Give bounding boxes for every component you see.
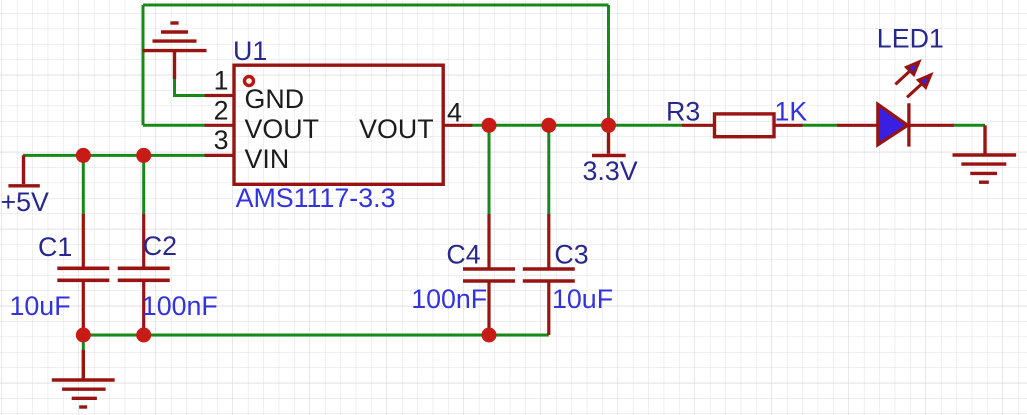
svg-text:100nF: 100nF [411, 284, 487, 314]
svg-text:VOUT: VOUT [245, 114, 319, 144]
wire output bus [471, 124, 682, 127]
svg-text:C4: C4 [446, 240, 480, 270]
svg-text:VOUT: VOUT [359, 114, 433, 144]
wire C4 top [488, 125, 491, 214]
LED LED1 [837, 23, 953, 146]
ground right [953, 125, 1017, 182]
svg-text:C1: C1 [38, 232, 72, 262]
svg-text:10uF: 10uF [10, 291, 71, 321]
svg-text:R3: R3 [666, 97, 700, 127]
capacitor C1 [10, 214, 110, 335]
svg-text:VIN: VIN [245, 144, 290, 174]
svg-text:1K: 1K [775, 97, 808, 127]
capacitor C2 [118, 214, 218, 335]
resistor R3 [666, 97, 807, 137]
svg-text:GND: GND [245, 84, 305, 114]
ground bottom-left [52, 350, 115, 407]
svg-text:1: 1 [214, 66, 229, 96]
U1 pin 3 [205, 125, 289, 174]
wire bottom ground stub [82, 335, 85, 351]
wire to pin2 [143, 124, 206, 127]
svg-text:3: 3 [214, 125, 229, 155]
svg-text:+5V: +5V [1, 187, 50, 217]
wire R3 to LED [801, 124, 839, 127]
svg-text:AMS1117-3.3: AMS1117-3.3 [236, 183, 396, 213]
svg-text:10uF: 10uF [552, 284, 613, 314]
capacitor C4 [411, 214, 515, 335]
wire top loop horizontal [143, 4, 609, 7]
U1 pin 1 [205, 66, 304, 114]
junction at output bus / C4 [482, 118, 497, 133]
wire C2 top [142, 155, 145, 214]
wire C1 top [82, 155, 85, 214]
svg-text:3.3V: 3.3V [583, 156, 638, 186]
wire +5V rail [23, 154, 206, 157]
svg-text:100nF: 100nF [142, 291, 218, 321]
U1 pin 2 [205, 95, 319, 144]
svg-text:C3: C3 [554, 240, 588, 270]
junction at +5V rail / C2 [136, 148, 151, 163]
junction at +5V rail / C1 [76, 148, 91, 163]
capacitor C3 [523, 214, 613, 335]
wire LED to ground [953, 124, 986, 127]
wire C3 top [547, 125, 550, 214]
power flag +5V [8, 155, 39, 185]
wire ground to pin1 [175, 79, 207, 96]
wire right vertical [607, 5, 610, 125]
wire bottom bus [83, 334, 549, 337]
svg-text:2: 2 [214, 95, 229, 125]
U1 pin 4 [359, 98, 472, 144]
junction at bottom bus / C2 [136, 328, 151, 343]
junction at output bus / 3.3V node [601, 118, 616, 133]
svg-text:LED1: LED1 [877, 23, 944, 53]
junction at bottom bus / C1 / ground [76, 328, 91, 343]
svg-text:C2: C2 [143, 231, 177, 261]
svg-text:U1: U1 [233, 36, 267, 66]
power flag 3.3V [592, 125, 626, 155]
junction at bottom bus / C4 [482, 328, 497, 343]
regulator IC U1 body [234, 65, 443, 184]
svg-text:4: 4 [447, 98, 462, 128]
junction at output bus / C3 [541, 118, 556, 133]
wire left vertical [142, 5, 145, 125]
ground top-left (flipped up) [143, 23, 207, 79]
